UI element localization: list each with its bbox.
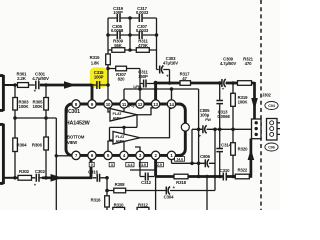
op-amp B flat amp: [113, 132, 140, 145]
wire amp A output to pin 13: [137, 108, 156, 115]
resistor R320: [231, 129, 248, 176]
svg-text:2.2K: 2.2K: [17, 76, 27, 81]
resistor R310: [113, 203, 125, 212]
svg-text:AMP: AMP: [116, 138, 125, 143]
capacitor C312: [140, 173, 154, 185]
svg-text:100K: 100K: [19, 104, 30, 109]
resistor R317: [180, 71, 191, 85]
svg-text:R318: R318: [176, 180, 186, 185]
wire pin 3 into amp B: [135, 147, 140, 151]
svg-text:R310: R310: [114, 203, 124, 208]
resistor R301: [17, 72, 29, 88]
svg-text:470K: 470K: [138, 43, 149, 48]
resistor R319: [231, 83, 249, 129]
pin 1: [167, 151, 175, 159]
svg-text:150P: 150P: [138, 74, 148, 79]
svg-text:R302: R302: [19, 169, 30, 174]
resistor R306: [32, 118, 49, 178]
resistor R304: [13, 118, 27, 178]
svg-text:100K: 100K: [238, 100, 249, 105]
wire network to C303: [156, 50, 158, 70]
wire vertical x215: [214, 129, 216, 190]
resistor R322: [235, 168, 249, 179]
wire pin2 column thin lower: [155, 177, 157, 211]
capacitor C304: [164, 185, 176, 200]
wire pin 10 into amp A: [108, 108, 110, 112]
wire drop to pin 13: [154, 82, 157, 100]
svg-text:C316: C316: [88, 169, 98, 174]
pin 7: [72, 151, 80, 159]
voltage box pin 3: [139, 162, 147, 167]
svg-text:R304: R304: [17, 142, 28, 147]
svg-text:R312: R312: [138, 203, 148, 208]
svg-text:56K: 56K: [114, 43, 122, 48]
pin 4: [120, 151, 128, 159]
pin 13: [151, 100, 159, 108]
pin 12: [136, 100, 144, 108]
wire drop from pin 6: [90, 159, 93, 179]
svg-text:100P: 100P: [94, 75, 104, 80]
resistor R315: [90, 50, 111, 100]
voltage box pin 5: [109, 162, 114, 167]
pin 14: [167, 100, 175, 108]
svg-text:C312: C312: [141, 180, 151, 185]
resistor R308: [114, 182, 126, 193]
resistor R307: [108, 66, 140, 81]
svg-text:R320: R320: [238, 147, 248, 152]
node label oval top: [265, 102, 278, 110]
svg-text:C06: C06: [268, 146, 275, 150]
wire pin11 stub: [123, 89, 125, 100]
dashed board boundary: [260, 0, 262, 210]
capacitor C319: [113, 6, 123, 22]
wire junction row y118: [15, 118, 56, 210]
wire pin14 stub: [171, 89, 173, 100]
svg-text:4.7µ/50V: 4.7µ/50V: [220, 61, 236, 66]
wire mid rail y129.3: [192, 128, 252, 130]
resistor R311: [136, 39, 149, 53]
pin 11: [120, 100, 128, 108]
op-amp IC301 body: [66, 104, 185, 155]
svg-text:C314: C314: [221, 142, 231, 147]
capacitor C310: [220, 168, 230, 181]
wire pin 4 into amp B: [123, 142, 125, 152]
svg-text:100µ: 100µ: [200, 113, 210, 118]
svg-text:10: 10: [106, 102, 111, 107]
wire drop from pin 2 thick: [154, 159, 157, 176]
wire stub to pin 7: [56, 155, 71, 157]
wire output rail thick: [156, 82, 255, 85]
wire pin 11 into amp A: [123, 108, 125, 112]
svg-text:FW: FW: [205, 118, 211, 122]
node label oval bottom: [265, 143, 278, 151]
capacitor C314: [216, 129, 231, 176]
left block edge top: [0, 75, 3, 111]
svg-text:R322: R322: [237, 168, 247, 173]
resistor R309: [112, 39, 125, 53]
resistor R321: [238, 56, 254, 85]
svg-text:3: 3: [111, 163, 113, 167]
wire C301 to C315 thick with arrow: [40, 81, 92, 89]
resistor R318: [174, 174, 188, 185]
wire C302 to pin6 thick with arrow: [42, 174, 92, 182]
resistor R316: [91, 196, 110, 210]
wire amp B output to pin 14: [140, 109, 172, 138]
capacitor C313: [216, 83, 230, 129]
svg-text:3.9: 3.9: [141, 163, 146, 167]
svg-text:47: 47: [182, 76, 187, 81]
highlight marker over C315: [90, 68, 108, 88]
wire feedback tie y89: [124, 88, 199, 90]
svg-text:R316: R316: [91, 197, 101, 202]
connector plug left: [252, 119, 262, 139]
voltage box pin 1: [175, 157, 185, 162]
resistor R302: [18, 169, 32, 180]
svg-text:HA1452W: HA1452W: [66, 120, 91, 126]
svg-text:12: 12: [138, 102, 143, 107]
capacitor C805: [199, 108, 212, 139]
resistor R303: [13, 85, 30, 118]
svg-text:C04: C04: [268, 104, 276, 108]
svg-text:11: 11: [122, 102, 127, 107]
resistor R312: [137, 203, 149, 212]
svg-text:VIEW: VIEW: [67, 140, 77, 145]
pin 9: [88, 100, 96, 108]
pin 2: [151, 151, 159, 159]
svg-text:4.7µ/50V: 4.7µ/50V: [32, 76, 49, 81]
svg-text:C302: C302: [35, 169, 46, 174]
wire input lower: [2, 177, 18, 179]
feedback network rails and verticals: [108, 18, 157, 50]
svg-text:1.8K: 1.8K: [91, 60, 101, 65]
voltage box pin 4: [126, 162, 134, 167]
svg-text:J302: J302: [262, 93, 272, 98]
capacitor C311: [138, 69, 154, 87]
wire R301 to C301: [29, 84, 35, 86]
svg-text:R315: R315: [90, 55, 100, 60]
svg-text:820: 820: [118, 77, 125, 82]
op-amp A flat amp: [110, 109, 137, 122]
wire vertical x198.6: [198, 89, 200, 177]
IC notch: [181, 123, 189, 131]
svg-text:0.0068: 0.0068: [217, 114, 230, 119]
wire pin 5 into amp B: [108, 141, 113, 151]
svg-text:470: 470: [245, 61, 252, 66]
resistor R305: [33, 85, 49, 118]
svg-text:C310: C310: [220, 168, 230, 173]
capacitor C301: [32, 72, 49, 94]
capacitor C806: [200, 154, 210, 167]
pin 6: [88, 151, 96, 159]
wire input upper: [2, 84, 18, 86]
svg-text:0.0033: 0.0033: [136, 10, 149, 15]
IC labels: [66, 109, 91, 145]
svg-text:IC301: IC301: [67, 109, 80, 115]
wire vertical x207: [206, 177, 208, 211]
wire drop to pin 9: [91, 84, 94, 100]
capacitor C302: [32, 169, 46, 188]
svg-text:100P: 100P: [113, 10, 123, 15]
wire bottom thick rail: [156, 175, 251, 178]
svg-text:2.9: 2.9: [157, 163, 162, 167]
svg-text:14: 14: [169, 102, 174, 107]
wire pin1 row y163.3: [172, 160, 216, 164]
voltage box pin 2: [155, 162, 163, 167]
svg-text:R306: R306: [32, 142, 43, 147]
pin 10: [104, 100, 112, 108]
svg-text:0.0068: 0.0068: [111, 28, 124, 33]
svg-text:47µ/16V: 47µ/16V: [163, 61, 178, 66]
pin 5: [104, 151, 112, 159]
svg-text:14.6: 14.6: [176, 158, 183, 162]
capacitor C309: [220, 56, 236, 91]
capacitor C303: [157, 56, 179, 83]
pin 3: [136, 151, 144, 159]
capacitor C316: [88, 169, 107, 181]
svg-text:0.0033: 0.0033: [136, 28, 149, 33]
left block edge bottom: [0, 124, 3, 184]
wire pin12 column: [139, 69, 141, 101]
svg-text:C304: C304: [164, 195, 174, 200]
svg-text:AMP: AMP: [113, 115, 122, 120]
capacitor C317: [136, 6, 149, 22]
svg-text:0: 0: [91, 163, 93, 167]
svg-text:100K: 100K: [33, 104, 44, 109]
capacitor C305: [111, 24, 124, 39]
wire vertical x192: [191, 129, 193, 163]
wire bottom output rise to connector with arrow: [248, 139, 255, 178]
wire R308 row: [107, 178, 215, 196]
svg-text:R308: R308: [115, 182, 125, 187]
wire output drop to connector with arrow: [251, 82, 258, 120]
voltage box pin 6: [89, 162, 94, 167]
svg-text:13: 13: [153, 102, 158, 107]
wire pin3 ladder: [130, 160, 156, 177]
capacitor C315: [93, 70, 107, 89]
pin 8: [72, 100, 80, 108]
connector socket right: [267, 119, 281, 141]
capacitor C307: [136, 24, 149, 39]
wire amp A to amp B coupling: [110, 115, 138, 140]
svg-text:C806: C806: [200, 154, 210, 159]
